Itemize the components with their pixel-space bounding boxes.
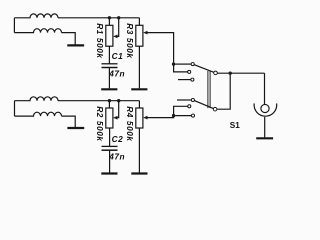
- wire to throw contact 1b: [174, 64, 188, 72]
- pin contact 1c: [191, 78, 194, 81]
- wire R1 bottom to C1: [108, 46, 110, 63]
- svg-text:47n: 47n: [108, 69, 125, 79]
- switch S1 lever pole 1: [194, 65, 214, 73]
- resistor R1 (tone pot body): [106, 25, 113, 46]
- capacitor C1 plates: [102, 63, 118, 65]
- pin pole 2: [213, 107, 217, 111]
- pin contact 2b: [188, 105, 191, 108]
- wiper arrow R2: [113, 116, 117, 120]
- svg-text:R1: R1: [95, 23, 105, 35]
- resistor R3 (volume pot body): [136, 25, 143, 46]
- ground C2: [101, 172, 117, 174]
- pickup 2 (bottom humbucker, upper coil): [15, 97, 59, 101]
- svg-text:S1: S1: [230, 121, 240, 130]
- pickup 1 lower coil: [14, 29, 61, 33]
- resistor R2 (tone pot body): [106, 108, 113, 128]
- node switch pole1 input: [172, 62, 175, 65]
- wire C1 to ground: [108, 68, 110, 89]
- wire bottom rail pickup2 to R4: [58, 100, 139, 102]
- svg-text:47n: 47n: [108, 151, 125, 161]
- wire pickup1 lower coil to ground: [62, 33, 76, 45]
- ground R3: [131, 88, 147, 90]
- node junction rail/R2 top: [108, 99, 111, 102]
- svg-text:500k: 500k: [125, 38, 135, 59]
- wire output node to jack: [264, 73, 266, 104]
- wire R1 wiper from rail: [117, 18, 119, 37]
- wiper arrow R4: [143, 116, 147, 120]
- pin contact 1a: [191, 63, 194, 66]
- ground jack: [256, 137, 273, 139]
- wire rail corner to R3 top: [138, 18, 140, 26]
- wire to throw contact 1a: [175, 63, 191, 65]
- wire pickup1 left vertical: [13, 18, 15, 33]
- ground pickup1: [67, 44, 84, 46]
- switch S1 lever pole 2: [194, 101, 213, 109]
- svg-text:R3: R3: [125, 23, 135, 35]
- node output junction: [229, 72, 232, 75]
- pin contact 2a: [191, 98, 194, 101]
- wire R3 wiper to switch: [147, 33, 173, 63]
- svg-text:500k: 500k: [95, 38, 105, 59]
- node switch pole2 input: [172, 114, 175, 117]
- wire R1 top stem: [108, 18, 110, 26]
- wire R3 bottom to ground: [138, 46, 140, 88]
- wire R2 wiper from rail: [117, 101, 119, 118]
- switch S1 actuator bar: [208, 71, 210, 108]
- wire stub throw contact 1c: [178, 79, 191, 81]
- pickup 1 (top humbucker, upper coil): [14, 14, 58, 18]
- pin contact 2c: [191, 114, 194, 117]
- wire R4 bottom to ground: [138, 128, 140, 173]
- connector X1 jack tip: [261, 104, 269, 112]
- wire rail corner to R4 top: [138, 101, 140, 108]
- wire R2 top stem: [108, 101, 110, 108]
- svg-text:C1: C1: [112, 51, 124, 61]
- wire pole1 to output node: [217, 72, 264, 74]
- svg-text:500k: 500k: [95, 121, 105, 142]
- wire R2 bottom to C2: [109, 128, 111, 146]
- node junction rail/R1 top: [108, 16, 111, 19]
- ground C1: [101, 88, 117, 90]
- svg-text:C2: C2: [112, 134, 124, 144]
- svg-text:R4: R4: [125, 106, 135, 118]
- svg-text:R2: R2: [95, 106, 105, 118]
- ground pickup2: [67, 127, 84, 129]
- wiper arrow R3: [143, 31, 147, 35]
- wire to throw contact 2b: [174, 106, 188, 115]
- wire jack to ground: [264, 117, 266, 137]
- ground R4: [131, 172, 147, 174]
- wire pickup2 left vertical: [14, 101, 16, 116]
- pin pole 1: [214, 71, 218, 75]
- resistor R4 (volume pot body): [136, 108, 143, 128]
- connector X1 jack sleeve arc: [254, 103, 277, 116]
- wire top rail pickup1 to R3: [58, 17, 139, 19]
- wire R4 wiper to switch: [147, 116, 173, 118]
- node junction rail/R2 wiper: [117, 99, 120, 102]
- pin contact 1b: [188, 70, 191, 73]
- wire to throw contact 2c: [175, 115, 191, 117]
- svg-text:500k: 500k: [125, 121, 135, 142]
- pickup 2 lower coil: [15, 112, 62, 116]
- node junction rail/R1 wiper: [117, 16, 120, 19]
- wire pole2 up to output node: [217, 75, 230, 109]
- wiper arrow R1: [113, 35, 117, 39]
- wire stub throw contact 2a: [177, 99, 191, 101]
- capacitor C2 plates: [102, 145, 118, 147]
- wire C2 to ground: [109, 150, 111, 172]
- wire pickup2 lower coil to ground: [62, 116, 76, 127]
